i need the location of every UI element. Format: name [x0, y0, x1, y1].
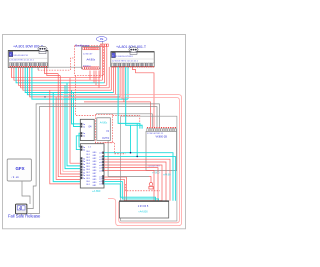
red/cyan wires K2 lower right, nested to box top: [104, 177, 165, 202]
svg-text:1 2 3 4 5 6 7 8 9 1 1 1 1 1 1: 1 2 3 4 5 6 7 8 9 1 1 1 1 1 1 1 1: [9, 59, 34, 61]
svg-text:OUT N: OUT N: [102, 138, 109, 140]
svg-text:GN9: GN9: [93, 179, 97, 181]
K2 left pins: [81, 146, 83, 148]
svg-text:+4.800: +4.800: [152, 171, 160, 174]
svg-text:PE: PE: [100, 37, 104, 41]
svg-text:1◂: 1◂: [83, 132, 85, 135]
U1 top pin row: [83, 47, 85, 50]
cyan links K1 lower pins to K2 upper pins: [79, 133, 80, 147]
U1 body: [82, 47, 100, 69]
svg-text:2◂: 2◂: [83, 149, 85, 152]
U1 bottom pin row: [83, 67, 85, 70]
wire bundle: left staircase + cross-page horizontals: [12, 68, 101, 78]
svg-text:2◂: 2◂: [83, 157, 85, 160]
svg-text:GN8: GN8: [93, 176, 97, 178]
node PE ellipse: [96, 37, 107, 42]
svg-text:2◂: 2◂: [83, 171, 85, 174]
X2 jog wire to K3: [132, 67, 154, 127]
U2 dashed red frame: [95, 115, 112, 143]
left block first pins early corners: [45, 68, 59, 74]
U2 body: [97, 118, 111, 141]
bottom box body: [119, 201, 168, 218]
cyan feeds from X2 to K3: [118, 67, 140, 129]
module K3 body: [146, 131, 177, 170]
X1 connector oval symbol: [38, 46, 47, 51]
svg-text:1 2 3 4 5 6 7 8 9 1 1 1 1 1 1: 1 2 3 4 5 6 7 8 9 1 1 1 1 1 1 1 1 1: [112, 60, 139, 62]
siren feed wire: [149, 177, 151, 183]
svg-text:GN5: GN5: [93, 167, 97, 169]
svg-text:2◂: 2◂: [83, 177, 85, 180]
svg-text:BL1: BL1: [87, 184, 90, 186]
svg-text:2◂: 2◂: [83, 174, 85, 177]
svg-text:Fail Safe Release: Fail Safe Release: [8, 214, 41, 219]
svg-text:BL4: BL4: [87, 163, 90, 165]
K2 right pins: [102, 152, 104, 154]
svg-text:BL2: BL2: [87, 157, 90, 159]
svg-text:A4.80x: A4.80x: [100, 122, 108, 125]
K3 top pins: [147, 127, 148, 128]
svg-text:GN4: GN4: [93, 164, 97, 166]
red dashed bus: U2 to K3: [113, 115, 140, 127]
svg-text:BL3: BL3: [87, 160, 90, 162]
svg-text:1◂: 1◂: [83, 135, 85, 138]
page border frame: [3, 35, 186, 229]
pink duct outer: [63, 95, 182, 226]
svg-text:2◂: 2◂: [83, 160, 85, 163]
terminal block X1 body: [8, 51, 48, 68]
svg-text:+A4.80: +A4.80: [163, 173, 171, 176]
svg-text:I N: I N: [106, 131, 109, 133]
svg-text:↓▼··▾▾: ↓▼··▾▾: [11, 176, 19, 179]
gray wire GFX to failsafe: [22, 181, 30, 204]
svg-text:GFX: GFX: [15, 166, 24, 171]
svg-text:1 2 3 4 5 6 7: 1 2 3 4 5 6 7: [83, 54, 92, 56]
right staircase drop verticals (from PE pins / right block): [99, 47, 101, 78]
svg-text:BL0: BL0: [87, 181, 90, 183]
svg-text:BL1: BL1: [87, 154, 90, 156]
U1 dashed red frame: [75, 46, 104, 76]
svg-text:GN0: GN0: [93, 152, 97, 154]
PE pin row: [100, 44, 102, 47]
failsafe body: [16, 204, 27, 214]
module K1 body: [80, 119, 94, 140]
svg-text:+A.890: +A.890: [92, 189, 101, 193]
red dashed bus: K2 right: [104, 143, 125, 154]
svg-text:1◂: 1◂: [83, 123, 85, 126]
svg-text:GN0: GN0: [93, 182, 97, 184]
svg-text:2◂: 2◂: [83, 146, 85, 149]
GFX panel body: [7, 159, 31, 181]
svg-text:GN7: GN7: [93, 173, 97, 175]
svg-text:1◂: 1◂: [83, 125, 85, 128]
svg-text:+A4.800: +A4.800: [138, 211, 148, 214]
svg-text:GN1: GN1: [93, 155, 97, 157]
gray stub near left block: [38, 66, 88, 68]
X1 blue corner module: [9, 52, 13, 57]
cyan feeds from bundle to K1 upper pins: [72, 90, 81, 124]
svg-text:BL9: BL9: [87, 178, 90, 180]
U1 bottom pin drops joining bundle: [89, 71, 91, 81]
extra X2 drop: red long line to K3 pin: [121, 67, 123, 99]
svg-text:BL5: BL5: [87, 166, 90, 168]
svg-text:GN3: GN3: [93, 161, 97, 163]
red dashed bus: left run: [38, 58, 75, 70]
svg-text:L1 L2 L3 L4 L5 L6 L7 L8 L9: L1 L2 L3 L4 L5 L6 L7 L8 L9: [112, 56, 133, 58]
gray wire B: failsafe - top run - K3 pin: [28, 107, 158, 214]
svg-text:2◂: 2◂: [83, 163, 85, 166]
svg-text:1 R 3 R 5: 1 R 3 R 5: [138, 205, 149, 208]
X2 connector oval symbol: [129, 47, 138, 52]
svg-text:BL0: BL0: [87, 151, 90, 153]
X2 pin row: [112, 63, 114, 67]
red wires K2 right to bottom box: [104, 159, 170, 201]
junction dots on bundle: [69, 94, 70, 95]
cyan net with junction dots: [104, 153, 173, 201]
X1 pin row: [9, 63, 11, 67]
svg-text:BL7: BL7: [87, 172, 90, 174]
X2 blue corner module: [112, 53, 116, 58]
svg-text:L1 L2 L3 L4 L5 L6 L7 L8: L1 L2 L3 L4 L5 L6 L7 L8: [9, 55, 27, 57]
gray wire C: PE down to K3: [102, 41, 104, 44]
gray wire U2 to siren run: [108, 141, 149, 177]
svg-text:GN1: GN1: [93, 185, 97, 187]
enclosure box right area: [121, 116, 177, 221]
gray wire A: failsafe - top run - K3 pin: [28, 104, 160, 209]
siren symbol: [149, 182, 153, 186]
svg-text:BL8: BL8: [87, 175, 90, 177]
svg-text:2◂: 2◂: [83, 169, 85, 172]
bundle drop verticals to K2 left pins: [70, 78, 80, 164]
module K2 body: [80, 144, 104, 188]
pink duct inner: [63, 98, 179, 223]
K1 pins: [81, 123, 83, 125]
svg-text:GN2: GN2: [93, 158, 97, 160]
svg-text:BL6: BL6: [87, 169, 90, 171]
svg-text:2◂: 2◂: [83, 166, 85, 169]
terminal block X2 body: [111, 52, 154, 67]
svg-text:VK800-2B: VK800-2B: [155, 136, 167, 139]
svg-text:GN6: GN6: [93, 170, 97, 172]
svg-text:A4.80x: A4.80x: [86, 57, 95, 61]
red dashed bottom right: [126, 184, 160, 191]
red dashed bus: U1 to U2: [75, 76, 95, 116]
